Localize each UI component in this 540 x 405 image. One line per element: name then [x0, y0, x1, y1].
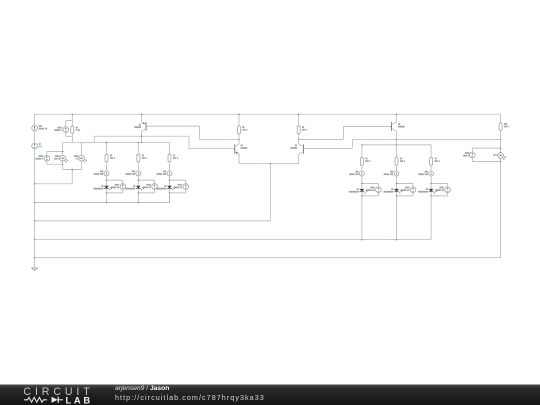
svg-text:http://circuitlab.com/c787hrqy: http://circuitlab.com/c787hrqy3ka33 [115, 393, 265, 402]
svg-text:LAB: LAB [66, 394, 93, 405]
svg-text:arjensen9 / Jason: arjensen9 / Jason [115, 385, 169, 392]
